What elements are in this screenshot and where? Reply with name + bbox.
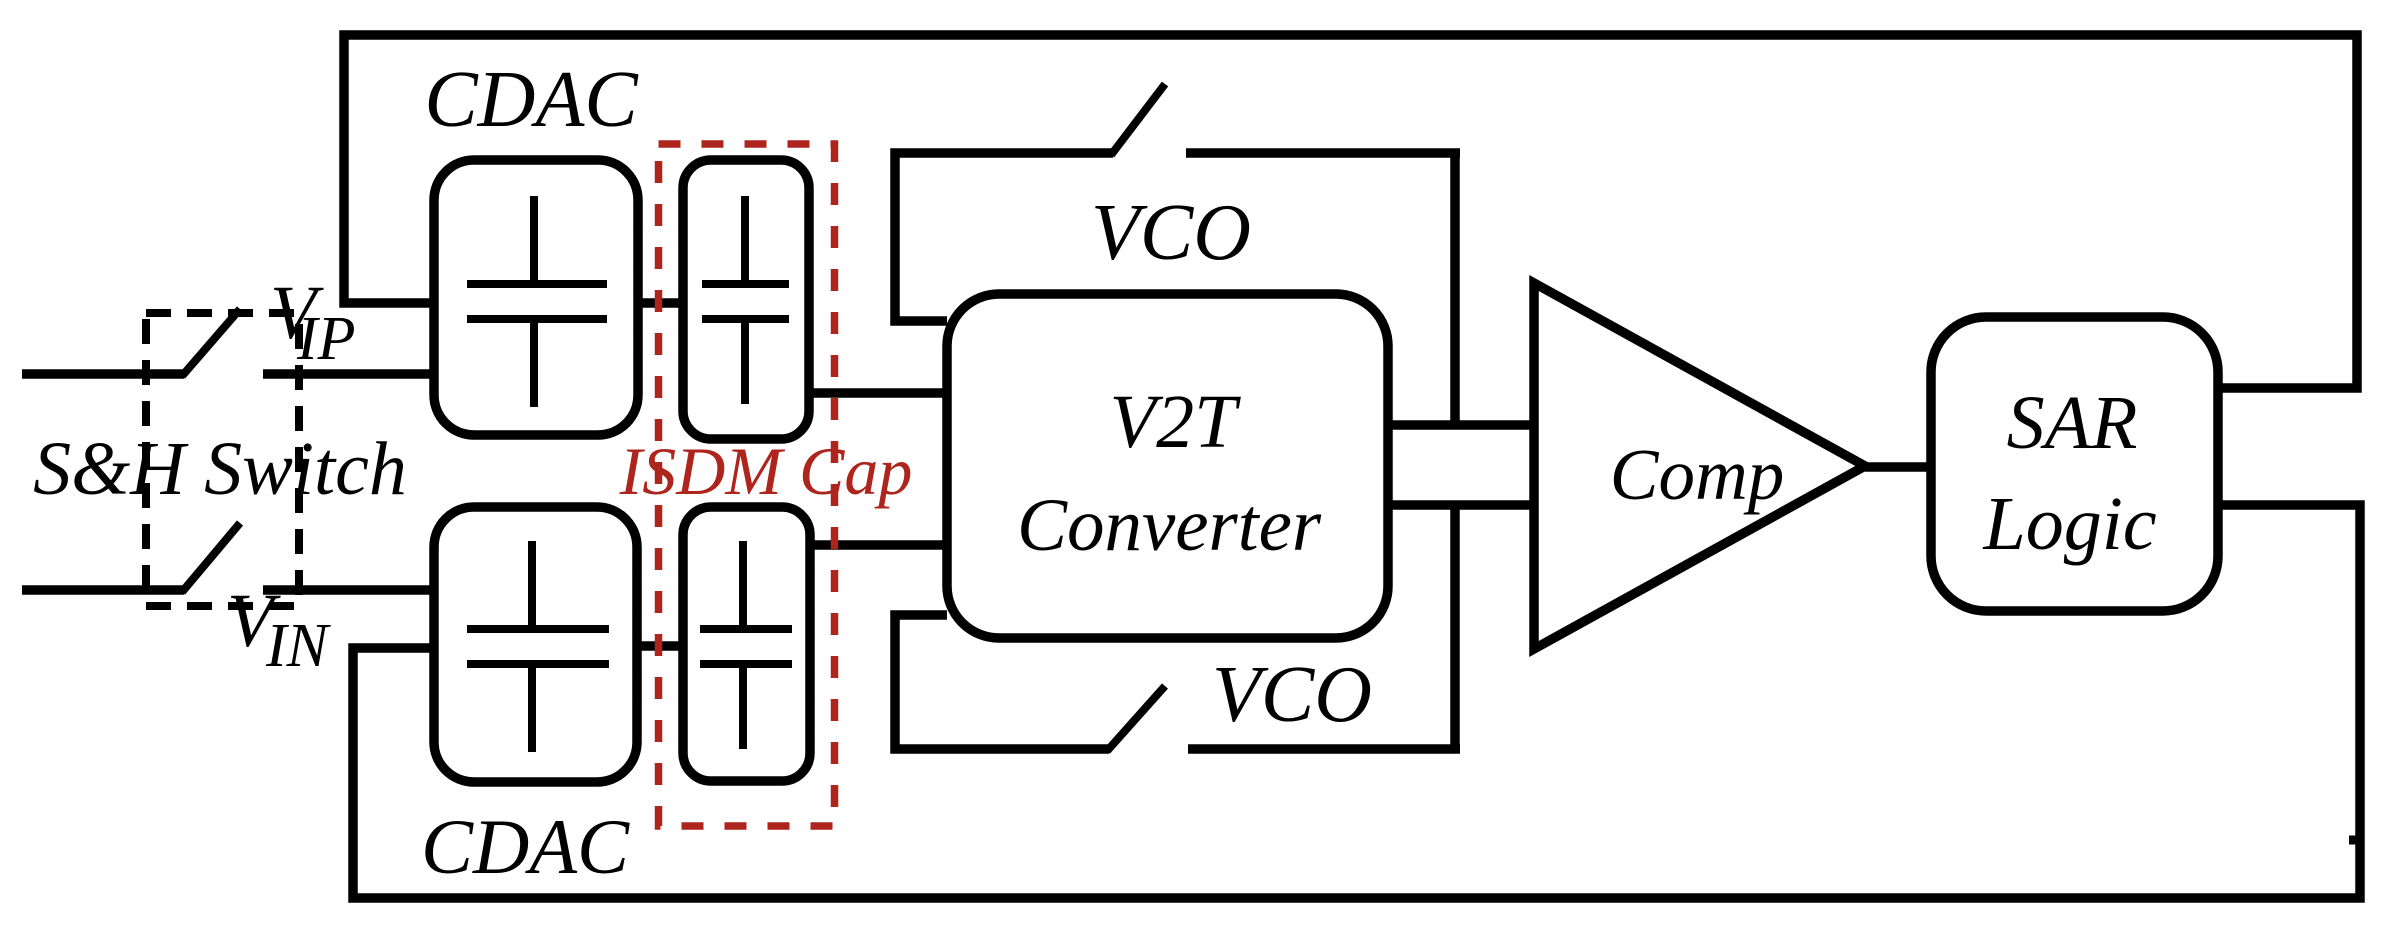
block: bottom CDAC xyxy=(434,507,637,782)
switch: VIN sampling switch blade xyxy=(182,523,240,592)
svg-text:S&H Switch: S&H Switch xyxy=(33,427,407,511)
svg-text:IP: IP xyxy=(296,305,356,373)
svg-text:CDAC: CDAC xyxy=(421,803,630,890)
wire: V2T to comparator bottom input xyxy=(1388,500,1534,510)
comparator triangle xyxy=(1534,283,1865,649)
wire: bottom VCO loop left side xyxy=(895,615,1109,749)
svg-text:CDAC: CDAC xyxy=(424,56,639,144)
svg-text:Logic: Logic xyxy=(1982,482,2156,566)
block: SAR logic xyxy=(1931,317,2218,611)
wire: bottom ISDM cap to V2T converter xyxy=(810,540,947,550)
capacitor inside top CDAC xyxy=(467,196,607,407)
svg-text:SAR: SAR xyxy=(2007,381,2138,465)
wire: comparator output to SAR logic xyxy=(1865,462,1931,472)
wire: top feedback loop from SAR Logic output to top CDAC xyxy=(344,35,2357,388)
wire: top ISDM cap to V2T converter xyxy=(809,388,947,398)
wire: bottom VCO loop right vertical xyxy=(1450,505,1460,749)
svg-text:VCO: VCO xyxy=(1091,189,1251,277)
node: tick on bottom-right vertical xyxy=(2349,836,2356,845)
wire: VIN input left segment xyxy=(22,585,184,595)
svg-text:Converter: Converter xyxy=(1017,484,1322,567)
wire: top VCO loop right side xyxy=(1186,148,1460,158)
capacitor inside bottom CDAC xyxy=(467,541,609,752)
switch: bottom VCO switch blade xyxy=(1107,686,1165,751)
capacitor inside top ISDM cap xyxy=(702,196,789,404)
red dashed box: ISDM cap group xyxy=(659,144,835,826)
svg-text:V2T: V2T xyxy=(1110,380,1241,464)
wire: top VCO loop right vertical xyxy=(1450,153,1460,425)
block: top ISDM cap xyxy=(683,160,809,439)
wire: bottom feedback loop from SAR Logic output to bottom CDAC xyxy=(353,505,2360,898)
block: V2T converter xyxy=(947,294,1388,638)
capacitor inside bottom ISDM cap xyxy=(700,541,792,749)
wire: VIP input right segment into top CDAC xyxy=(263,369,434,379)
switch: VIP sampling switch blade xyxy=(182,309,240,376)
wire: top VCO loop left side xyxy=(895,153,1113,321)
svg-text:ISDM Cap: ISDM Cap xyxy=(619,433,913,509)
wire: bottom CDAC to bottom ISDM cap xyxy=(637,641,683,651)
S&H switch dashed box xyxy=(146,313,299,606)
wire: top CDAC to top ISDM cap xyxy=(638,298,683,308)
svg-text:IN: IN xyxy=(265,612,332,680)
wire: V2T to comparator top input xyxy=(1388,420,1534,430)
wire: VIN input right segment into bottom CDAC xyxy=(263,585,434,595)
wire: bottom VCO loop right side xyxy=(1188,744,1460,754)
svg-text:Comp: Comp xyxy=(1610,434,1784,515)
switch: top VCO switch blade xyxy=(1111,84,1165,155)
block: top CDAC xyxy=(434,160,638,435)
block: bottom ISDM cap xyxy=(683,507,810,781)
wire: VIP input left segment xyxy=(22,369,184,379)
svg-text:VCO: VCO xyxy=(1212,651,1372,739)
